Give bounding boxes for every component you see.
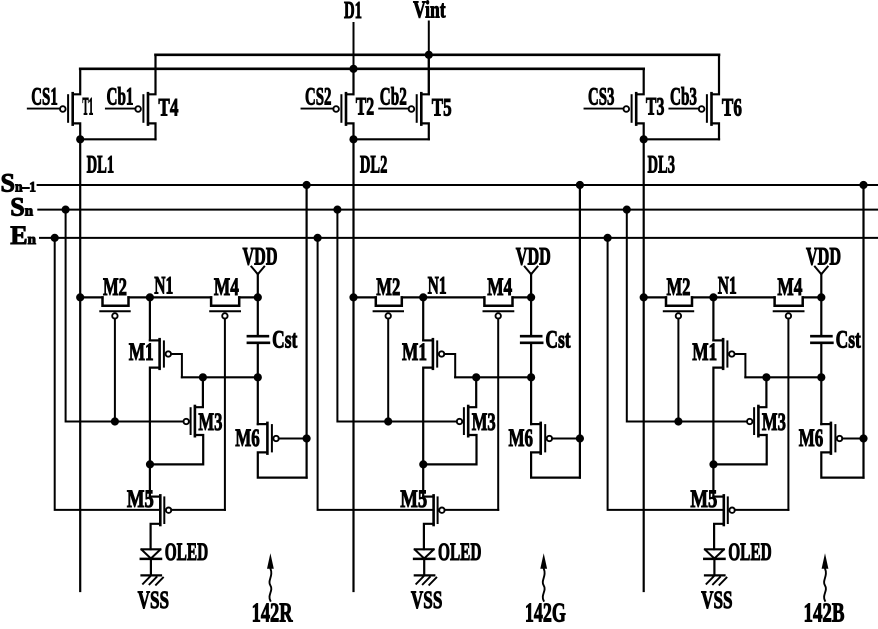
wire: En tap vertical and branch to M5 gate (pixel R) [55, 238, 161, 510]
diode OLED (pixel R) [141, 549, 161, 575]
svg-text:VDD: VDD [806, 244, 841, 271]
transistor T6 (PMOS init switch) [699, 55, 719, 140]
node: junction M3 drain on gate row (pixel B) [762, 373, 770, 381]
svg-text:OLED: OLED [438, 539, 482, 566]
node: junction M3 drain on gate row (pixel R) [199, 373, 207, 381]
transistor M2 (pixel B) [664, 297, 693, 318]
transistor T1 (PMOS select switch) [60, 69, 80, 140]
svg-text:M6: M6 [509, 425, 534, 452]
diode OLED (pixel B) [704, 549, 724, 575]
wire: gate line Cb2 (control signal, underline) to T5 gate [379, 108, 409, 110]
node: junction M1 source / M3 source / M5 drain (pixel R) [146, 460, 154, 468]
svg-text:M5: M5 [690, 486, 717, 513]
svg-text:DL1: DL1 [87, 152, 115, 179]
ground VSS symbol (pixel B) [705, 575, 727, 584]
svg-text:Cst: Cst [272, 326, 298, 353]
node: M6 gate junction dot (pixel R) [303, 434, 311, 442]
wire: row wire DL-M2-N1-M4-VDD (pixel R) [80, 296, 258, 298]
svg-text:T3: T3 [646, 94, 665, 121]
svg-text:M3: M3 [472, 409, 496, 436]
node: junction DL2 / row wire [349, 293, 357, 301]
capacitor Cst (pixel B) [811, 297, 832, 424]
node: Sn-1 tap junction dot (pixel R) [303, 181, 311, 189]
transistor M6 emission (pixel R) [258, 423, 307, 478]
svg-text:M1: M1 [402, 339, 427, 366]
wire: Sn tap vertical and branch to M2/M3 gates (pixel B) [627, 210, 747, 422]
svg-text:VSS: VSS [138, 587, 170, 614]
node: Sn tap junction dot (pixel G) [333, 206, 341, 214]
wire: En tap vertical and branch to M5 gate (pixel G) [318, 238, 434, 510]
svg-text:T2: T2 [356, 94, 375, 121]
wire: Sn-1 tap vertical to M6 gate/source (pixel B) [862, 185, 864, 478]
svg-text:M2: M2 [103, 274, 127, 301]
svg-text:OLED: OLED [728, 539, 772, 566]
transistor M6 emission (pixel G) [531, 423, 580, 478]
wire: gate line Cb3 (control signal, underline) to T6 gate [669, 108, 699, 110]
svg-text:M5: M5 [400, 486, 427, 513]
svg-text:M2: M2 [376, 274, 400, 301]
wire: Sn tap vertical and branch to M2/M3 gates (pixel R) [66, 210, 184, 422]
node: M6 gate junction dot (pixel G) [576, 434, 584, 442]
wire: D1 vertical drop to lower rail and T2 drain [353, 23, 355, 94]
svg-text:M1: M1 [692, 339, 717, 366]
wire: Sn-1 tap vertical to M6 gate/source (pixel R) [306, 185, 308, 478]
node: junction Cst bottom on gate row (pixel G) [527, 373, 535, 381]
node: junction Cst bottom on gate row (pixel B) [817, 373, 825, 381]
transistor M5 (pixel R) [150, 495, 225, 549]
wire: Vint vertical drop to upper rail and T5 drain [428, 22, 430, 95]
wire: data line DL3 vertical (pixel B) [643, 139, 645, 591]
annotation arrow for 142R [269, 569, 271, 601]
wire: T2/T5 common source wire to node DL2 [354, 138, 429, 140]
wire: Sn-1 tap vertical to M6 gate/source (pixel G) [579, 185, 581, 478]
node N1 dot (pixel B) [709, 293, 717, 301]
power symbol VDD (pixel G) [525, 267, 538, 298]
svg-text:VDD: VDD [243, 244, 278, 271]
node: En tap junction dot (pixel G) [314, 234, 322, 242]
node: En tap junction dot (pixel B) [604, 234, 612, 242]
wire: row wire DL-M2-N1-M4-VDD (pixel G) [354, 296, 532, 298]
svg-text:VDD: VDD [516, 244, 551, 271]
node: M6 gate junction dot (pixel B) [859, 434, 867, 442]
svg-text:M4: M4 [487, 274, 512, 301]
svg-text:CS1: CS1 [31, 84, 57, 111]
svg-text:M1: M1 [129, 339, 154, 366]
diode OLED (pixel G) [414, 549, 434, 575]
node: junction VDD / row wire (pixel B) [817, 293, 825, 301]
node DL1 junction dot [76, 135, 84, 143]
wire: upper rail (Vint net) connecting T4 T5 T6 drains [156, 53, 720, 56]
svg-text:Cst: Cst [836, 326, 862, 353]
svg-text:T6: T6 [722, 95, 742, 122]
wire: M2 gate lead down to Sn branch (pixel B) [677, 319, 679, 422]
wire: gate line CS2 (control signal, underline) to T2 gate [302, 108, 334, 110]
svg-text:M3: M3 [762, 409, 786, 436]
ground VSS symbol (pixel R) [142, 575, 164, 584]
wire: Sn tap vertical and branch to M2/M3 gates (pixel G) [337, 210, 456, 422]
node: Sn-1 tap junction dot (pixel G) [576, 181, 584, 189]
node: junction DL1 / row wire [76, 293, 84, 301]
svg-text:M4: M4 [214, 274, 239, 301]
svg-text:M6: M6 [799, 425, 824, 452]
svg-text:CS2: CS2 [305, 84, 332, 111]
svg-text:M6: M6 [235, 425, 260, 452]
wire: M4 gate lead down to M5 gate / En branch (pixel R) [224, 319, 226, 510]
wire: gate line CS1 (control signal, underline) to T1 gate [28, 108, 60, 110]
transistor T3 (PMOS select switch) [624, 69, 644, 140]
node: M2 gate junction on Sn branch (pixel B) [674, 417, 682, 425]
wire: M1 gate to Cst bottom / M3 drain row (pixel B) [745, 376, 821, 378]
transistor M1 drive (pixel R) [150, 297, 182, 496]
node: junction Cst bottom on gate row (pixel R) [254, 373, 262, 381]
wire: En tap vertical and branch to M5 gate (pixel B) [608, 238, 724, 510]
node: junction M3 drain on gate row (pixel G) [472, 373, 480, 381]
svg-text:Cst: Cst [545, 326, 571, 353]
node: Sn tap junction dot (pixel B) [623, 206, 631, 214]
wire: M2 gate lead down to Sn branch (pixel G) [387, 319, 389, 422]
wire: M4 gate lead down to M5 gate / En branch (pixel B) [787, 319, 789, 510]
node: junction M1 source / M3 source / M5 drain (pixel B) [709, 460, 717, 468]
wire: T3/T6 common source wire to node DL3 [644, 138, 719, 140]
node: junction M1 source / M3 source / M5 drain (pixel G) [419, 460, 427, 468]
svg-text:OLED: OLED [165, 539, 209, 566]
svg-text:CS3: CS3 [588, 84, 615, 111]
svg-text:D1: D1 [344, 0, 362, 24]
node N1 dot (pixel G) [419, 293, 427, 301]
transistor M4 (pixel B) [774, 297, 804, 318]
svg-text:T4: T4 [158, 95, 178, 122]
node DL2 junction dot [349, 135, 357, 143]
wire: data line DL1 vertical (pixel R) [79, 139, 81, 591]
svg-text:Cb1: Cb1 [107, 84, 134, 111]
wire: scan line Sn [38, 209, 878, 211]
transistor M6 emission (pixel B) [821, 423, 863, 478]
power symbol VDD (pixel B) [815, 267, 828, 298]
transistor M2 (pixel R) [100, 297, 129, 318]
node: Sn tap junction dot (pixel R) [62, 206, 70, 214]
transistor M1 drive (pixel G) [423, 297, 455, 496]
svg-text:M5: M5 [127, 486, 154, 513]
svg-text:T1: T1 [82, 94, 93, 121]
svg-text:142B: 142B [804, 598, 845, 625]
svg-text:VSS: VSS [701, 587, 733, 614]
svg-text:M2: M2 [667, 274, 691, 301]
svg-text:N1: N1 [428, 273, 447, 300]
wire: scan line Sn-1 [38, 184, 878, 186]
svg-text:M3: M3 [198, 409, 222, 436]
svg-text:VSS: VSS [411, 587, 443, 614]
node: M2 gate junction on Sn branch (pixel G) [384, 417, 392, 425]
node: junction of D1 and lower rail [349, 65, 357, 73]
wire: gate line CS3 (control signal, underline) to T3 gate [585, 108, 624, 110]
wire: row wire DL-M2-N1-M4-VDD (pixel B) [644, 296, 822, 298]
wire: M2 gate lead down to Sn branch (pixel R) [114, 319, 116, 422]
transistor M3 (pixel G) [424, 377, 477, 464]
annotation arrow for 142G [543, 569, 545, 601]
transistor M3 (pixel B) [714, 377, 767, 464]
transistor T2 (PMOS select switch) [333, 69, 353, 140]
svg-text:T5: T5 [432, 95, 452, 122]
wire: M1 gate to Cst bottom / M3 drain row (pixel R) [182, 376, 258, 378]
node DL3 junction dot [640, 135, 648, 143]
svg-text:142G: 142G [525, 598, 566, 625]
transistor M4 (pixel R) [210, 297, 240, 318]
capacitor Cst (pixel G) [521, 297, 542, 424]
annotation arrow for 142B [824, 569, 826, 601]
svg-text:N1: N1 [718, 273, 737, 300]
node: junction VDD / row wire (pixel R) [254, 293, 262, 301]
transistor M3 (pixel R) [150, 377, 203, 464]
wire: M4 gate lead down to M5 gate / En branch (pixel G) [497, 319, 499, 510]
svg-text:Vint: Vint [413, 0, 446, 23]
wire: M1 gate to Cst bottom / M3 drain row (pixel G) [455, 376, 531, 378]
ground VSS symbol (pixel G) [415, 575, 437, 584]
node: junction DL3 / row wire [640, 293, 648, 301]
svg-text:DL3: DL3 [648, 152, 676, 179]
wire: data line DL2 vertical (pixel G) [352, 139, 354, 591]
transistor M2 (pixel G) [374, 297, 403, 318]
svg-text:Cb2: Cb2 [380, 84, 407, 111]
transistor M5 (pixel B) [713, 495, 788, 549]
transistor M4 (pixel G) [484, 297, 514, 318]
transistor M1 drive (pixel B) [713, 297, 745, 496]
svg-text:N1: N1 [154, 273, 173, 300]
svg-text:M4: M4 [777, 274, 802, 301]
node: En tap junction dot (pixel R) [51, 234, 59, 242]
wire: emission line En [40, 237, 878, 239]
svg-text:DL2: DL2 [360, 152, 388, 179]
capacitor Cst (pixel R) [248, 297, 269, 424]
node: junction VDD / row wire (pixel G) [527, 293, 535, 301]
power symbol VDD (pixel R) [251, 267, 264, 298]
svg-text:Cb3: Cb3 [670, 84, 697, 111]
node: M2 gate junction on Sn branch (pixel R) [111, 417, 119, 425]
node: junction of Vint and upper rail [425, 51, 433, 59]
wire: gate line Cb1 (control signal, underline) to T4 gate [106, 108, 135, 110]
node N1 dot (pixel R) [146, 293, 154, 301]
svg-text:142R: 142R [252, 598, 293, 625]
transistor M5 (pixel G) [423, 495, 498, 549]
node: Sn-1 tap junction dot (pixel B) [859, 181, 867, 189]
transistor T4 (PMOS init switch) [135, 55, 155, 140]
wire: T1/T4 common source wire to node DL1 [80, 138, 155, 140]
transistor T5 (PMOS init switch) [409, 55, 429, 140]
wire: lower rail (D1 net) connecting T1 T2 T3 drains [80, 68, 644, 71]
